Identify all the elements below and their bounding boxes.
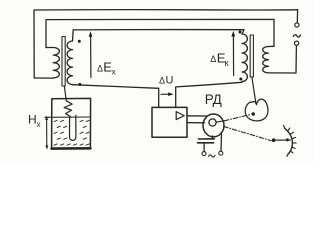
wire measuring loop top (73, 30, 244, 34)
spring (64, 101, 72, 117)
arrow ΔU (161, 92, 174, 96)
svg-text:Δ: Δ (159, 76, 165, 86)
tank bottom heavy line (52, 147, 91, 150)
motor supply terminal left (202, 152, 206, 156)
cam profile (245, 99, 268, 121)
amplifier U1 box (152, 107, 187, 137)
sector pointer hub blob (286, 138, 289, 141)
svg-text:x: x (112, 68, 116, 77)
sector toothed arc (285, 128, 293, 153)
shaft dash-dot motor to sector pivot (224, 126, 272, 140)
wire T2 primary bottom lead to AC source (269, 45, 297, 73)
motor РД inner circle (209, 119, 216, 126)
sector pointer line (274, 139, 291, 141)
tank vessel (52, 98, 91, 148)
arrow ΔEx (89, 31, 93, 77)
motor supply terminal right (219, 151, 223, 155)
amplifier triangle (176, 112, 184, 120)
capacitor C1 plate bottom (198, 142, 214, 144)
wire measuring loop bottom right segment (176, 82, 242, 108)
rod T2 core to cam (252, 77, 256, 103)
transformer T2 primary winding (263, 47, 269, 73)
svg-text:Δ: Δ (210, 54, 216, 64)
sector teeth (284, 125, 297, 156)
wire T1 primary bottom lead (34, 77, 53, 79)
svg-text:Δ: Δ (97, 64, 103, 74)
arrow ΔEk (231, 31, 235, 76)
displacer tube (70, 115, 76, 140)
svg-text:к: к (225, 58, 229, 68)
node dot T1 secondary top (78, 40, 81, 43)
label ΔEk (210, 51, 228, 68)
wire T1 primary top lead (46, 47, 53, 49)
cam pivot dot (252, 112, 255, 115)
liquid hatching (54, 120, 89, 145)
wire amplifier to motor upper (187, 115, 207, 117)
wire T2 primary top lead (269, 45, 275, 47)
wire outer AC loop top (34, 10, 298, 78)
node dot T2 secondary top (239, 31, 242, 34)
rod T1 core to spring (64, 86, 66, 101)
capacitor C1 plate top (198, 138, 214, 140)
liquid surface line (45, 116, 90, 118)
label Hx (28, 113, 41, 130)
shaft dash-dot motor to cam (224, 115, 250, 121)
AC source terminal bottom (295, 41, 299, 45)
label РД (205, 92, 222, 107)
transformer T2 core (250, 35, 253, 77)
svg-text:Н: Н (28, 113, 37, 127)
svg-text:х: х (37, 120, 41, 129)
wire measuring loop bottom left segment (73, 85, 159, 108)
sector pivot dot (272, 138, 276, 142)
wire motor left lead down (211, 136, 213, 139)
transformer T1 primary winding (53, 48, 59, 78)
AC source terminal top (295, 23, 299, 27)
label ΔEx (97, 60, 116, 77)
wire capacitor to terminal (203, 143, 205, 152)
node dot T2 secondary bottom (239, 78, 242, 81)
motor shaft line (216, 121, 224, 122)
wire T1 secondary top lead (72, 30, 75, 41)
transformer T2 secondary winding (242, 34, 247, 82)
dimension arrow Hx (45, 116, 48, 150)
svg-text:РД: РД (205, 92, 222, 107)
node dot T1 secondary bottom (78, 83, 81, 86)
svg-text:U: U (166, 75, 174, 87)
transformer T1 secondary winding (67, 41, 72, 84)
wire inner AC loop (second line) (46, 19, 274, 47)
AC source tilde (293, 35, 300, 37)
transformer T1 core (62, 37, 65, 87)
wire motor right lead down (220, 134, 223, 151)
wire amplifier to motor lower (187, 122, 205, 124)
motor supply tilde (209, 155, 216, 157)
motor РД outer circle (203, 114, 224, 137)
label ΔU (159, 75, 174, 87)
